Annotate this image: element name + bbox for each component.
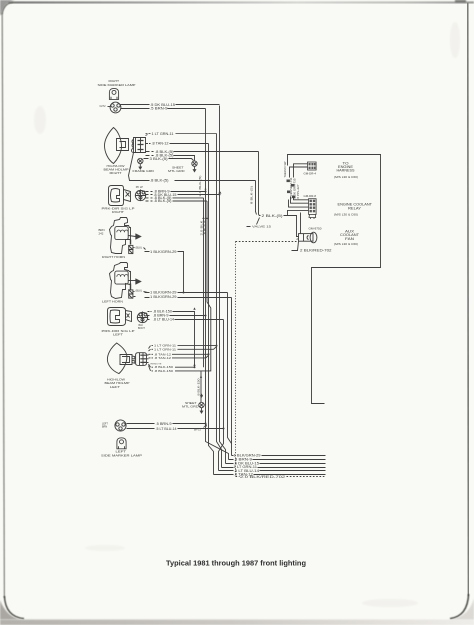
- junction mark on ground drop: [200, 394, 203, 398]
- wire bundle row 3 DK BLU-15: [226, 462, 326, 466]
- svg-text:LEFT: LEFT: [110, 385, 120, 389]
- label HIGH/LOW BEAM HDLMP LEFT: [105, 378, 130, 389]
- svg-text:GM-DR-4: GM-DR-4: [304, 172, 317, 175]
- svg-text:THERMO SW: THERMO SW: [283, 161, 287, 177]
- junction dots left marker rows: [205, 423, 225, 430]
- park-turn lamp right connector: [135, 186, 145, 201]
- right side marker lamp label: [98, 79, 136, 87]
- wire trunk LT GRN-11 vertical: [217, 134, 222, 468]
- headlamp left reflector: [107, 343, 134, 374]
- wire .5 BRN-9 from right marker: [121, 107, 206, 111]
- junction marks park lamp left: [193, 307, 206, 316]
- label LEFT HORN: [102, 300, 123, 304]
- svg-text:(BLK): (BLK): [136, 247, 143, 250]
- wire BLK ground trunk vertical pair to 2 BLK-(5): [256, 152, 259, 215]
- svg-text:LEFT HORN: LEFT HORN: [102, 300, 123, 304]
- label 8 BLK-(5) vertical on trunk: [250, 186, 254, 204]
- svg-text:SIDE MARKER LAMP: SIDE MARKER LAMP: [98, 83, 136, 87]
- wires from relay connector: [284, 197, 309, 216]
- wire .8 BRN-9 from park lamp right: [146, 190, 206, 194]
- bottom-left exterior wedge: [0, 600, 20, 620]
- page bottom-left corner arc: [4, 596, 24, 619]
- svg-text:.8 PPL-227: .8 PPL-227: [296, 184, 300, 200]
- wire trunk TAN-12 vertical: [209, 144, 214, 475]
- label (M/S L30 and C60) 2: [334, 213, 358, 217]
- svg-text:.5 LT BLU-14: .5 LT BLU-14: [156, 427, 177, 431]
- wire 1 BLK/GRN-29 right horn: [134, 248, 184, 293]
- svg-text:.5 BRN-9: .5 BRN-9: [156, 422, 172, 426]
- svg-text:2 BLK-(5): 2 BLK-(5): [262, 214, 283, 218]
- junction dots right park lamp: [205, 188, 222, 196]
- horn left connector: [129, 284, 133, 299]
- label 2 BLK-(5) row to fan: [259, 214, 299, 237]
- label ENGINE COOLANT RELAY: [338, 203, 373, 211]
- left side marker lamp connector: [102, 420, 126, 431]
- label .8 DK GRN-735 vertical: [292, 178, 296, 200]
- page bottom-right corner arc: [450, 594, 469, 619]
- svg-text:VALVE 15: VALVE 15: [252, 225, 272, 229]
- wire 1 LT GRN-11 left headlamp row2: [149, 347, 217, 352]
- horn right connector: [129, 240, 133, 254]
- wire .8 BRN-9 from park lamp left: [148, 314, 206, 318]
- label (M/S L30 and C60) 1: [334, 175, 358, 179]
- headlamp right reflector: [105, 128, 129, 164]
- right side marker lamp symbol: [109, 88, 118, 99]
- wire .8 BLK-150 from park lamp left: [148, 310, 195, 368]
- svg-text:GM-9750: GM-9750: [309, 227, 323, 230]
- wire 1 BLK/GRN-29 left horn row1: [134, 291, 228, 295]
- svg-text:1 BLK/GRN-29: 1 BLK/GRN-29: [150, 291, 177, 295]
- annotation VALVE leader: [247, 218, 272, 229]
- svg-text:GM-DR-8: GM-DR-8: [304, 195, 317, 198]
- label (BLK) right horn: [136, 247, 143, 250]
- label GM-DR-8: [304, 195, 317, 198]
- svg-text:SIDE MARKER LAMP: SIDE MARKER LAMP: [101, 453, 142, 457]
- fan motor: [299, 227, 323, 243]
- wire .8 BLK-150 left headlamp row2 to ground drop: [149, 366, 202, 403]
- wire bundle row 5 LT BLU-14: [219, 469, 326, 473]
- label GM-DR-4: [304, 172, 317, 175]
- svg-text:.5 BRN-9: .5 BRN-9: [150, 107, 168, 111]
- svg-text:Typical 1981 through 1987 fron: Typical 1981 through 1987 front lighting: [166, 559, 306, 568]
- wire .8 TAN-12 from right headlamp: [146, 141, 209, 145]
- wire .8 BLK-(5) from park lamp right row1: [146, 196, 204, 200]
- sheet metal ground symbol left: [199, 402, 204, 413]
- label FRAME GRD: [133, 169, 155, 173]
- svg-text:1 BLK/GRN-29: 1 BLK/GRN-29: [150, 295, 177, 299]
- label PRK-DIR SIG LP LEFT: [102, 329, 135, 337]
- svg-text:1 BLK/GRN-29: 1 BLK/GRN-29: [150, 250, 177, 254]
- svg-text:1 LT GRN-11: 1 LT GRN-11: [154, 347, 176, 351]
- svg-text:.8 BLK-150: .8 BLK-150: [154, 369, 173, 373]
- wire 1 LT GRN-11 left headlamp row1: [149, 344, 217, 349]
- svg-text:LEFT: LEFT: [113, 332, 123, 336]
- svg-text:.8 BLK-5: .8 BLK-5: [203, 220, 207, 236]
- label (M/S L30 and C60) 3: [334, 242, 358, 246]
- svg-text:.8 BLK-(5): .8 BLK-(5): [150, 179, 169, 183]
- right side marker lamp connector C272: [100, 102, 121, 113]
- wire .8 BLK-150 left headlamp row1: [149, 364, 195, 369]
- wire .5 DK BLU-15 from right marker: [121, 103, 220, 107]
- svg-text:.8 TAN-12: .8 TAN-12: [152, 141, 169, 145]
- svg-text:1 LT GRN-11: 1 LT GRN-11: [152, 132, 174, 136]
- svg-text:242: 242: [99, 232, 104, 236]
- svg-text:2 BLK/RED-702: 2 BLK/RED-702: [300, 248, 332, 252]
- svg-text:2.0 BLK/RED-702: 2.0 BLK/RED-702: [240, 475, 285, 479]
- wire .8 TAN-12 left headlamp row1: [149, 352, 209, 356]
- park-turn lamp left body: [108, 308, 132, 326]
- svg-text:MTL GRD: MTL GRD: [182, 404, 199, 408]
- label THERMO SW vertical: [283, 161, 287, 177]
- wire .5 LT BLU-14 from left marker: [127, 427, 224, 431]
- page top-right smudge: [455, 0, 466, 2]
- svg-text:(M/S L30 & C60): (M/S L30 & C60): [334, 242, 358, 246]
- svg-text:PK LP: PK LP: [136, 186, 143, 189]
- wire trunk DK BLU-15 vertical: [220, 106, 226, 464]
- svg-text:2.0 BLK: 2.0 BLK: [200, 220, 204, 235]
- label SHEET MTL GRD right: [168, 166, 185, 174]
- label .8 BLK-(5) vertical on drop B: [203, 220, 207, 236]
- wire .5 BRN-9 from left marker: [127, 422, 206, 426]
- wire trunk BRN-9 vertical: [206, 109, 229, 460]
- label AUX COOLANT FAN: [340, 229, 359, 240]
- relay connector GM-DR-8: [309, 199, 317, 219]
- svg-text:FRAME GRD: FRAME GRD: [133, 169, 155, 173]
- label 2.0 BLK-(5) vertical: [198, 176, 202, 197]
- wire 1 LT GRN-11 from right headlamp: [146, 132, 217, 136]
- wires from GM-DR-4 to thermo switch column: [288, 161, 308, 178]
- svg-text:(BLK): (BLK): [136, 290, 143, 293]
- label HIGH/LOW BEAM HDLMP RIGHT: [104, 164, 129, 175]
- wire dashed BLK/RED-702 horizontal to fan terminal A: [236, 241, 298, 243]
- park-turn lamp right body: [109, 186, 131, 206]
- label RIGHT HORN: [102, 255, 125, 259]
- page bottom edge line: [22, 618, 452, 620]
- junction dot horns: [183, 292, 185, 294]
- left side marker lamp symbol: [117, 438, 126, 449]
- svg-text:.8 BLK-(5): .8 BLK-(5): [154, 199, 172, 203]
- wire 3 BLK-(5) frame ground to sheet ground: [144, 157, 194, 161]
- label .8 PPL-227 vertical: [296, 184, 300, 200]
- wire trunk BLK/GRN-29 vertical b: [231, 298, 233, 456]
- park-turn lamp left connector: [137, 312, 147, 330]
- svg-text:(M/S L30 & C60): (M/S L30 & C60): [334, 213, 358, 217]
- fan terminal A: [296, 237, 298, 241]
- wire .8 BLK ground drop A from park lamp right: [203, 198, 205, 367]
- wire .8 TAN-12 left headlamp row2: [149, 355, 209, 360]
- exterior below bottom edge: [0, 620, 474, 625]
- svg-text:MTL GRD: MTL GRD: [168, 169, 185, 173]
- label BRN 242: [99, 228, 105, 236]
- horn left body: [110, 263, 142, 299]
- page left edge line: [2, 13, 4, 598]
- svg-text:BR-15: BR-15: [194, 429, 201, 432]
- left side marker lamp label: [101, 450, 142, 458]
- wire .8 DK BLU-15 from park lamp right: [146, 193, 220, 197]
- junction arrows on ground drops: [202, 216, 208, 219]
- label REMOTE tiny: [151, 364, 163, 366]
- wire bundle row 1 BLK/GRN-29: [232, 454, 326, 458]
- bottom-right exterior wedge: [452, 598, 474, 620]
- svg-text:HARNESS: HARNESS: [337, 169, 355, 173]
- svg-text:RIGHT: RIGHT: [112, 210, 124, 214]
- wire trunk LT BLU-14 vertical: [219, 320, 224, 471]
- wire .8 BLK-(5) row 1 to trunk: [146, 150, 259, 154]
- svg-text:.8 LT BLU-14: .8 LT BLU-14: [153, 318, 174, 322]
- junction marks left headlamp rows: [193, 345, 217, 378]
- svg-text:2.0 BLK-(5): 2.0 BLK-(5): [198, 176, 202, 197]
- label PRK-DIR SIG LP RIGHT: [102, 206, 135, 214]
- wire relay to fan vertical: [300, 213, 302, 234]
- wire dashed BLK/RED-702 vertical and bottom row: [236, 242, 326, 480]
- wire .8 BLK ground drop B from park lamp right: [201, 201, 211, 371]
- wire trunk BLK/GRN-29 vertical a: [228, 293, 232, 444]
- svg-text:BOOT: BOOT: [138, 327, 145, 330]
- page top edge band: [8, 2, 474, 4]
- wire 1 BLK/GRN-29 left horn row2: [134, 295, 232, 299]
- svg-text:A: A: [296, 237, 298, 241]
- svg-text:RELAY: RELAY: [348, 206, 362, 210]
- label (BLK) left horn: [136, 290, 143, 293]
- page right edge line: [468, 3, 469, 596]
- engine compartment boundary box: [288, 155, 381, 404]
- label 2 BLK/RED-702 with leader: [292, 242, 332, 253]
- wire .8 BLK-(5) diagonal from headlamp connector: [129, 153, 256, 183]
- label 2.0 BLK-(5) vertical on drop A: [200, 220, 204, 235]
- svg-text:8 BLK-(5): 8 BLK-(5): [250, 186, 254, 204]
- wire bundle row 4 LT GRN-11: [222, 465, 326, 469]
- horn right body: [110, 218, 142, 254]
- svg-text:RIGHT: RIGHT: [110, 171, 122, 175]
- svg-text:.8 BLK-150: .8 BLK-150: [197, 378, 201, 397]
- page top-left corner exterior shading: [0, 0, 15, 15]
- wire .8 BLK-(5) row 2 to sheet ground: [146, 154, 195, 161]
- label .8 RED/WHT-731 vertical: [289, 177, 293, 200]
- wire bundle row 2 BRN-9: [229, 458, 326, 462]
- svg-text:RIGHT HORN: RIGHT HORN: [102, 255, 125, 259]
- label SHEET MTL GRD left: [182, 401, 199, 409]
- svg-text:FAN: FAN: [345, 237, 355, 241]
- headlamp right connector: [132, 138, 146, 153]
- headlamp left connector: [136, 353, 149, 366]
- splice marks in relay wire column: [287, 180, 296, 199]
- svg-text:(M/S L30 & C60): (M/S L30 & C60): [334, 175, 358, 179]
- svg-text:BRN: BRN: [102, 425, 107, 428]
- label TO ENGINE HARNESS: [337, 161, 355, 172]
- svg-text:3 BLK-(5): 3 BLK-(5): [150, 157, 168, 161]
- wire .8 LT BLU-14 from park lamp left: [148, 318, 224, 322]
- frame ground symbol: [138, 158, 143, 169]
- connector GM-DR-4 to engine harness: [308, 162, 317, 170]
- annotation BR-15 with arrow: [194, 425, 207, 432]
- page top-left corner arc: [2, 2, 13, 14]
- wire bundle row 6 TAN-12: [214, 473, 326, 477]
- svg-text:C272: C272: [100, 105, 107, 108]
- label .8 BLK-150 vertical on ground drop: [197, 378, 201, 397]
- sheet metal ground symbol right: [192, 161, 197, 172]
- svg-text:.8 TAN-12: .8 TAN-12: [154, 356, 171, 360]
- wire .8 BLK-(5) from park lamp right row2: [146, 199, 208, 203]
